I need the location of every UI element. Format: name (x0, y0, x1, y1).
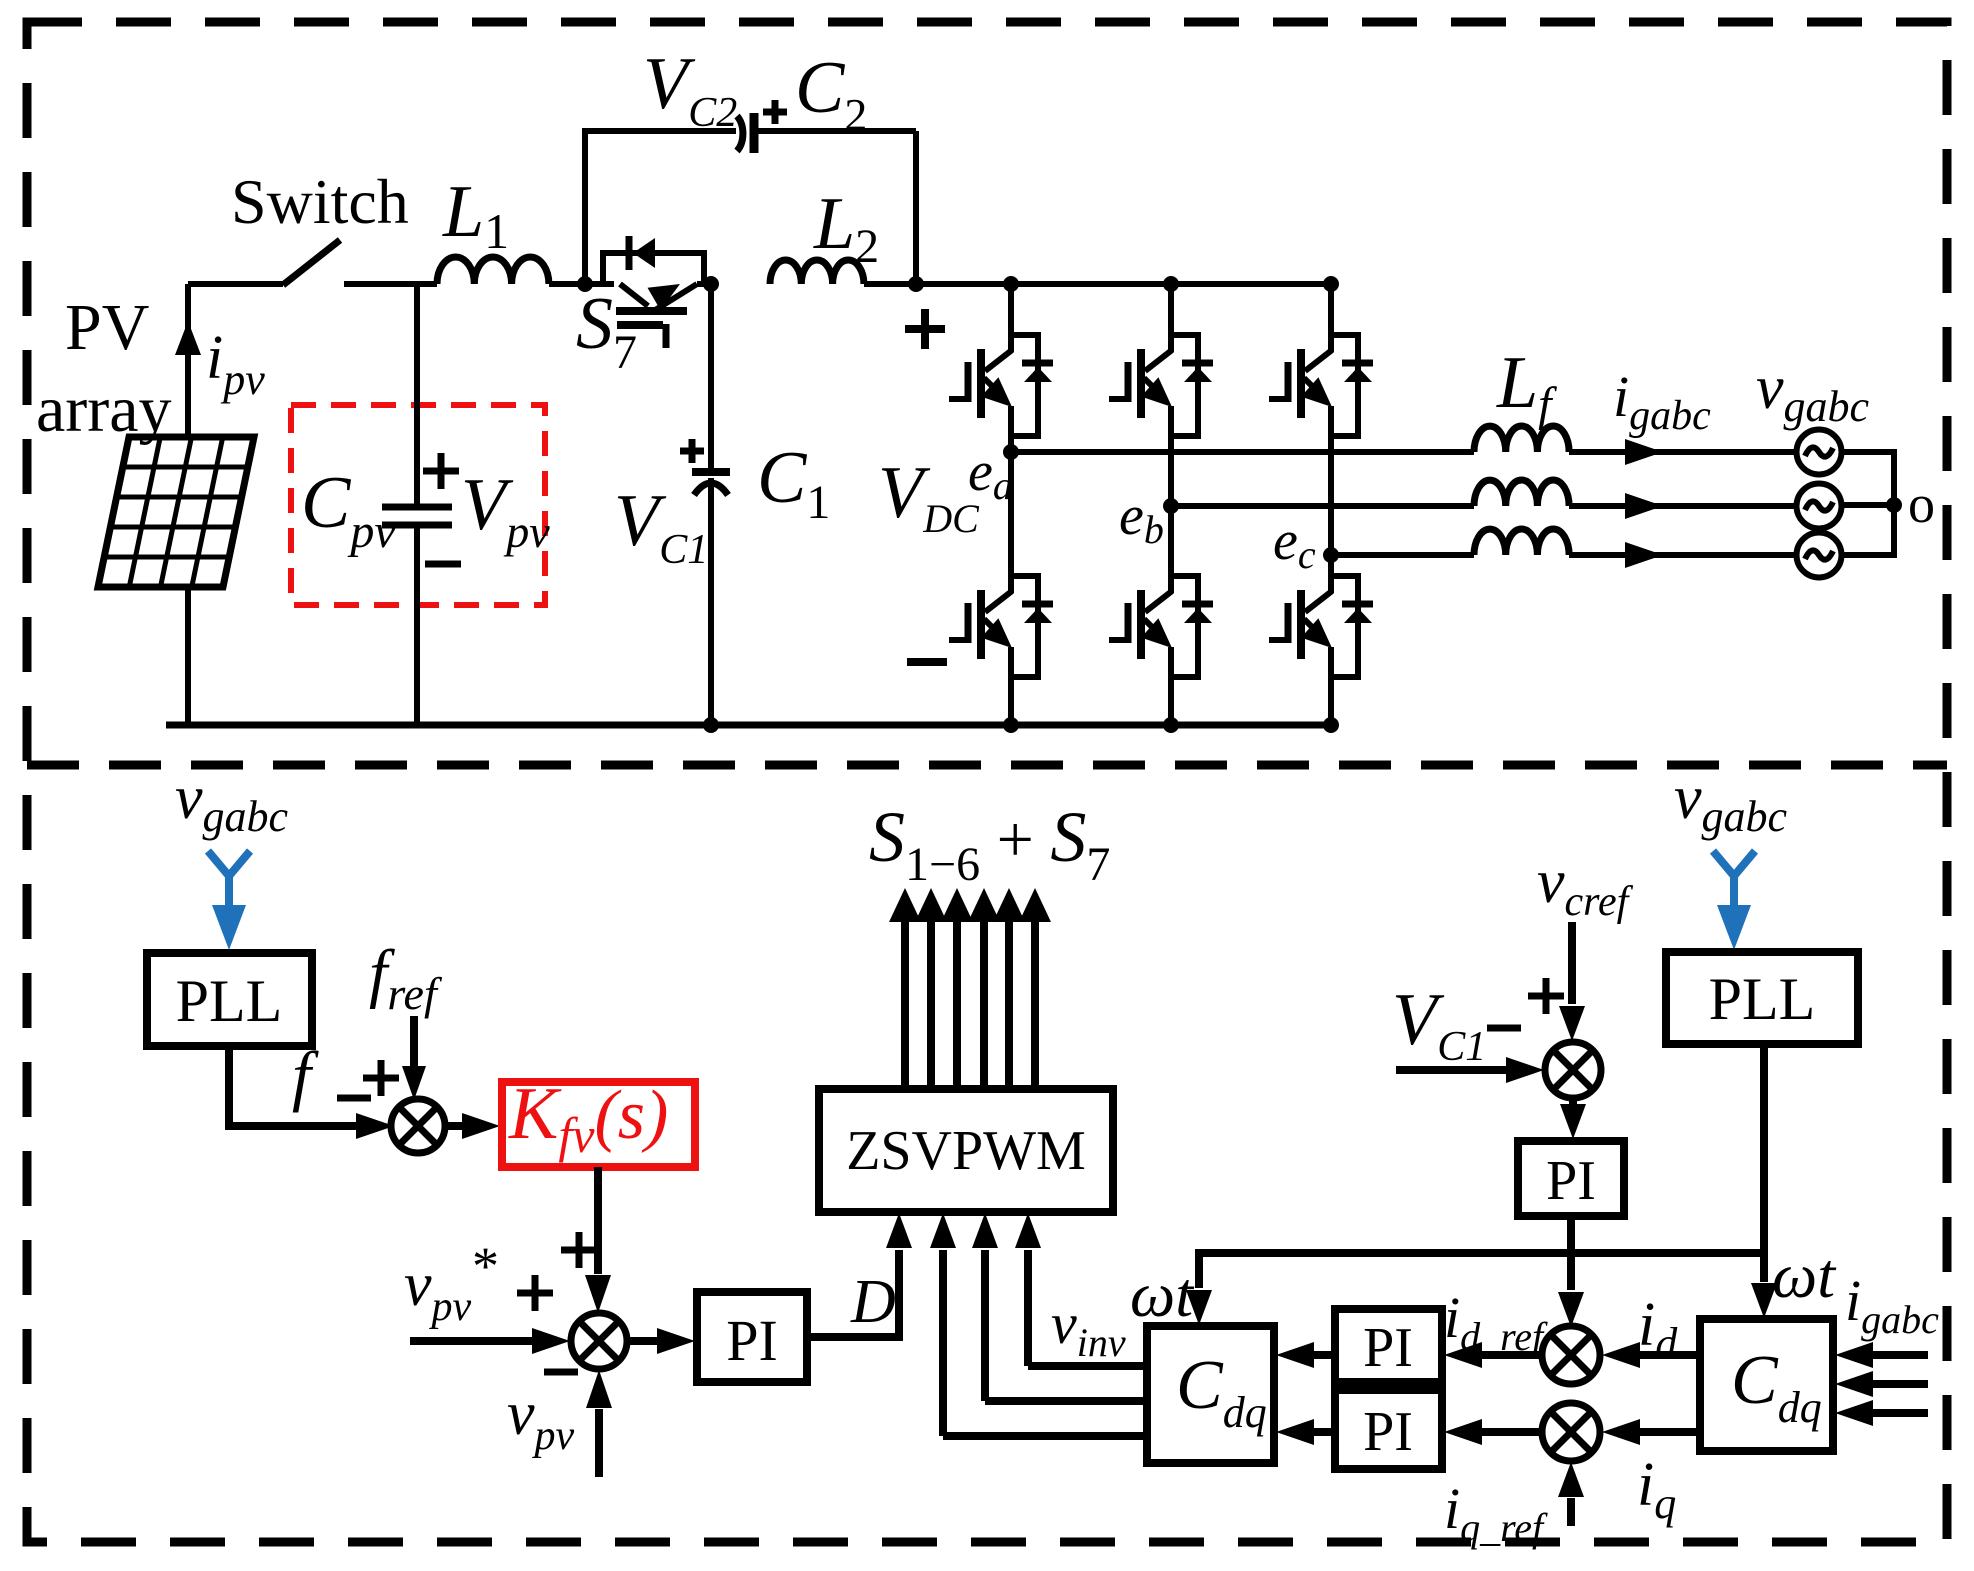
svg-text:PI: PI (1546, 1150, 1596, 1212)
svg-text:o: o (1908, 474, 1935, 534)
svg-text:PLL: PLL (176, 968, 283, 1034)
svg-text:PV: PV (65, 291, 149, 364)
svg-text:PI: PI (726, 1308, 778, 1373)
svg-text:ωt: ωt (1130, 1259, 1195, 1330)
svg-text:PI: PI (1363, 1401, 1413, 1463)
svg-text:Switch: Switch (231, 166, 409, 237)
svg-text:PI: PI (1363, 1317, 1413, 1379)
svg-text:PLL: PLL (1709, 966, 1816, 1032)
svg-text:ZSVPWM: ZSVPWM (846, 1120, 1086, 1182)
svg-text:*: * (472, 1236, 499, 1296)
svg-text:ωt: ωt (1772, 1240, 1837, 1311)
svg-text:D: D (850, 1268, 896, 1336)
